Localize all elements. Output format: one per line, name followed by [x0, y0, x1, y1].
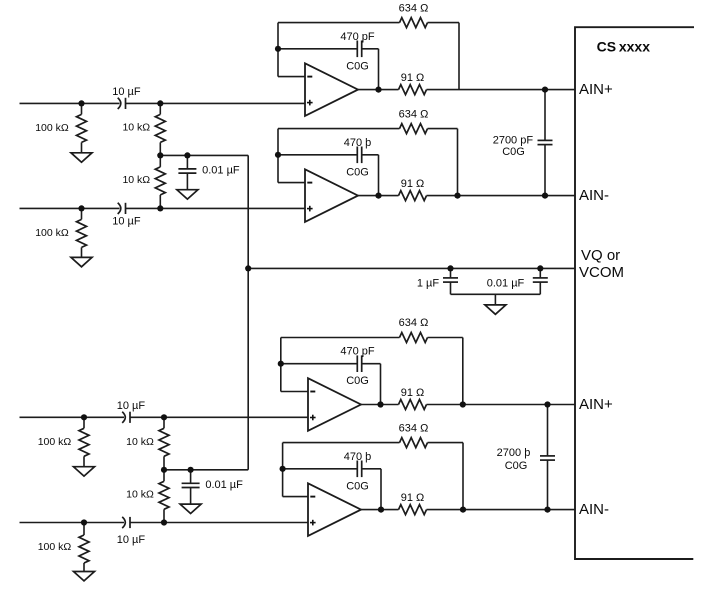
svg-text:91 Ω: 91 Ω: [401, 72, 425, 84]
resistor 10 kOhm (lower): [163, 470, 165, 482]
resistor 10 kOhm (lower): [159, 155, 161, 167]
node U1 feedback left junction: [275, 46, 281, 52]
op-amp U3: [308, 378, 361, 431]
resistor 634 Ohm (U4 feedback): [283, 442, 400, 444]
svg-text:100 kΩ: 100 kΩ: [35, 122, 69, 134]
svg-text:470 þ: 470 þ: [344, 137, 372, 149]
op-amp U4: [308, 483, 361, 536]
wire input line 3: [20, 416, 125, 418]
capacitor 10 uF (line 3): [122, 412, 125, 423]
svg-text:470 pF: 470 pF: [340, 31, 375, 43]
node 2700pF bottom-pair top: [544, 401, 550, 407]
wire input line 4: [20, 522, 125, 524]
resistor 91 Ohm (U3 output): [399, 400, 427, 410]
svg-text:100 kΩ: 100 kΩ: [38, 541, 72, 553]
wire U1 feedback left vertical: [277, 23, 279, 77]
node 2700pF bottom: [542, 193, 548, 199]
resistor 634 Ohm (U1 feedback): [278, 22, 400, 24]
capacitor 0.01 uF (bias decouple): [186, 155, 188, 169]
svg-text:634 Ω: 634 Ω: [399, 317, 429, 329]
svg-text:C0G: C0G: [346, 375, 369, 387]
svg-text:C0G: C0G: [346, 166, 369, 178]
capacitor 0.01 uF (bias decouple): [190, 470, 192, 484]
wire input line 2: [20, 207, 120, 209]
node cap/10k input B junction: [157, 205, 163, 211]
svg-text:91 Ω: 91 Ω: [401, 492, 425, 504]
node U4 output junction: [378, 507, 384, 513]
node feedback/output T: [454, 193, 460, 199]
resistor 634 Ohm (U2 feedback): [278, 128, 400, 130]
svg-text:AIN+: AIN+: [579, 81, 613, 98]
svg-text:10 kΩ: 10 kΩ: [126, 488, 154, 500]
chip CSxxxx outline: [575, 27, 694, 559]
wire VQ/VCOM rail: [248, 267, 575, 269]
capacitor 470 p (U3 feedback): [281, 363, 358, 365]
svg-text:2700 þ: 2700 þ: [497, 447, 531, 459]
op-amp U4 minus sign: [310, 496, 315, 498]
svg-text:91 Ω: 91 Ω: [401, 387, 425, 399]
node U2 feedback left junction: [275, 152, 281, 158]
svg-text:0.01 µF: 0.01 µF: [202, 164, 240, 176]
wire U4 inverting input: [283, 496, 308, 498]
wire U3 feedback left vertical: [280, 338, 282, 392]
svg-text:100 kΩ: 100 kΩ: [38, 436, 72, 448]
ground (100k lower): [74, 572, 95, 581]
node U3 feedback left junction: [278, 361, 284, 367]
wire 634 Ohm right drop: [457, 129, 459, 196]
capacitor 2700 pF C0G (top pair): [544, 90, 546, 141]
wire U4 feedback left vertical: [282, 443, 284, 497]
svg-text:0.01 µF: 0.01 µF: [487, 277, 525, 289]
op-amp U3 plus sign: [310, 417, 316, 419]
resistor 10 kOhm (upper): [159, 103, 161, 114]
resistor 91 Ohm (U2 output): [399, 191, 427, 201]
capacitor 10 uF (line 1): [118, 98, 121, 109]
wire U2 feedback left vertical: [277, 129, 279, 183]
node feedback/output T: [460, 401, 466, 407]
wire 470pF right drop: [378, 155, 380, 196]
capacitor 2700 pF C0G (bottom pair): [547, 405, 549, 456]
svg-text:634 Ω: 634 Ω: [399, 108, 429, 120]
wire VQ cap bottoms: [451, 293, 541, 295]
node feedback/output T: [460, 507, 466, 513]
node 100k/input A junction: [78, 100, 84, 106]
svg-text:VQ or: VQ or: [581, 247, 620, 264]
wire mid node to bias rail: [160, 154, 248, 156]
wire 634 Ohm right drop: [462, 338, 464, 405]
node U1 output junction: [375, 87, 381, 93]
ground (100k upper): [74, 467, 95, 476]
ground (0.01 uF): [177, 190, 198, 199]
wire 634 Ohm right drop: [462, 443, 464, 510]
node 100k/input B junction: [78, 205, 84, 211]
ground (100k lower): [71, 257, 92, 266]
node 2700pF bottom-pair bottom: [544, 507, 550, 513]
wire output to chip: [427, 195, 576, 197]
capacitor 470 p (U1 feedback): [278, 48, 357, 50]
node 100k/input B junction: [81, 519, 87, 525]
svg-text:AIN+: AIN+: [579, 396, 613, 413]
op-amp U2: [305, 169, 358, 222]
node cap/10k input B junction: [161, 519, 167, 525]
op-amp U1: [305, 63, 358, 116]
wire output to chip: [427, 509, 576, 511]
wire 470pF right drop: [380, 469, 382, 510]
node 100k/input A junction: [81, 414, 87, 420]
resistor 100 kOhm (upper): [83, 417, 85, 428]
op-amp U3 minus sign: [310, 391, 315, 393]
svg-text:100 kΩ: 100 kΩ: [35, 227, 69, 239]
svg-text:CS xxxx: CS xxxx: [597, 38, 651, 54]
capacitor 470 þ (U4 feedback): [283, 468, 358, 470]
wire output to chip: [427, 404, 576, 406]
resistor 634 Ohm (U3 feedback): [281, 337, 400, 339]
node mid junction: [157, 152, 163, 158]
svg-text:1 µF: 1 µF: [417, 277, 440, 289]
node U3 output junction: [377, 401, 383, 407]
svg-text:10 kΩ: 10 kΩ: [122, 174, 150, 186]
svg-text:10 µF: 10 µF: [117, 400, 146, 412]
svg-text:C0G: C0G: [505, 460, 528, 472]
op-amp U2 plus sign: [307, 208, 313, 210]
svg-text:10 kΩ: 10 kΩ: [126, 436, 154, 448]
resistor 91 Ohm (U4 output): [399, 505, 427, 515]
ground (0.01 uF): [180, 504, 201, 513]
node mid junction: [161, 467, 167, 473]
node cap/10k input A junction: [161, 414, 167, 420]
svg-text:C0G: C0G: [346, 480, 369, 492]
ground (100k upper): [71, 153, 92, 162]
svg-text:10 µF: 10 µF: [112, 215, 141, 227]
wire mid node to bias rail: [164, 469, 248, 471]
op-amp U1 plus sign: [307, 102, 313, 104]
wire U1 inverting input: [278, 76, 305, 78]
resistor 10 kOhm (upper): [163, 417, 165, 428]
resistor 100 kOhm (lower): [81, 208, 83, 219]
capacitor 0.01 uF (VQ): [539, 268, 541, 278]
svg-text:C0G: C0G: [346, 60, 369, 72]
resistor 91 Ohm (U1 output): [399, 85, 427, 95]
wire bias vertical: [247, 155, 249, 469]
wire U3 output line: [361, 404, 399, 406]
svg-text:AIN-: AIN-: [579, 501, 609, 518]
svg-text:634 Ω: 634 Ω: [399, 2, 429, 14]
svg-text:VCOM: VCOM: [579, 264, 624, 281]
node 2700pF top: [542, 87, 548, 93]
capacitor 10 uF (line 4): [122, 517, 125, 528]
wire output to chip: [427, 89, 576, 91]
ground (VQ caps): [494, 294, 496, 305]
wire 470pF right drop: [380, 364, 382, 405]
wire U1 output line: [358, 89, 399, 91]
svg-text:10 µF: 10 µF: [117, 534, 146, 546]
op-amp U1 minus sign: [307, 76, 312, 78]
svg-text:10 kΩ: 10 kΩ: [122, 122, 150, 134]
wire U3 inverting input: [281, 391, 308, 393]
node U4 feedback left junction: [280, 466, 286, 472]
svg-text:AIN-: AIN-: [579, 187, 609, 204]
node U2 output junction: [375, 193, 381, 199]
wire 634 Ohm right drop: [458, 23, 460, 90]
node 0.01 uF tap: [188, 467, 194, 473]
resistor 100 kOhm (lower): [83, 523, 85, 536]
resistor 100 kOhm (upper): [81, 103, 83, 114]
op-amp U4 plus sign: [310, 522, 316, 524]
node cap/10k input A junction: [157, 100, 163, 106]
wire U2 inverting input: [278, 182, 305, 184]
wire input line 1: [20, 102, 120, 104]
capacitor 470 þ (U2 feedback): [278, 154, 357, 156]
wire U4 output line: [361, 509, 399, 511]
node VQ rail tap: [245, 265, 251, 271]
svg-text:91 Ω: 91 Ω: [401, 178, 425, 190]
wire U2 output line: [358, 195, 399, 197]
wire 470pF right drop: [378, 49, 380, 90]
svg-text:470 pF: 470 pF: [340, 346, 375, 358]
svg-text:10 µF: 10 µF: [112, 86, 141, 98]
capacitor 1 uF: [450, 268, 452, 278]
node 0.01 uF tap: [184, 152, 190, 158]
op-amp U2 minus sign: [307, 182, 312, 184]
svg-text:0.01 µF: 0.01 µF: [205, 479, 243, 491]
svg-text:634 Ω: 634 Ω: [399, 422, 429, 434]
svg-text:C0G: C0G: [502, 146, 525, 158]
capacitor 10 uF (line 2): [118, 203, 121, 214]
svg-text:2700 pF: 2700 pF: [493, 134, 534, 146]
svg-text:470 þ: 470 þ: [344, 451, 372, 463]
